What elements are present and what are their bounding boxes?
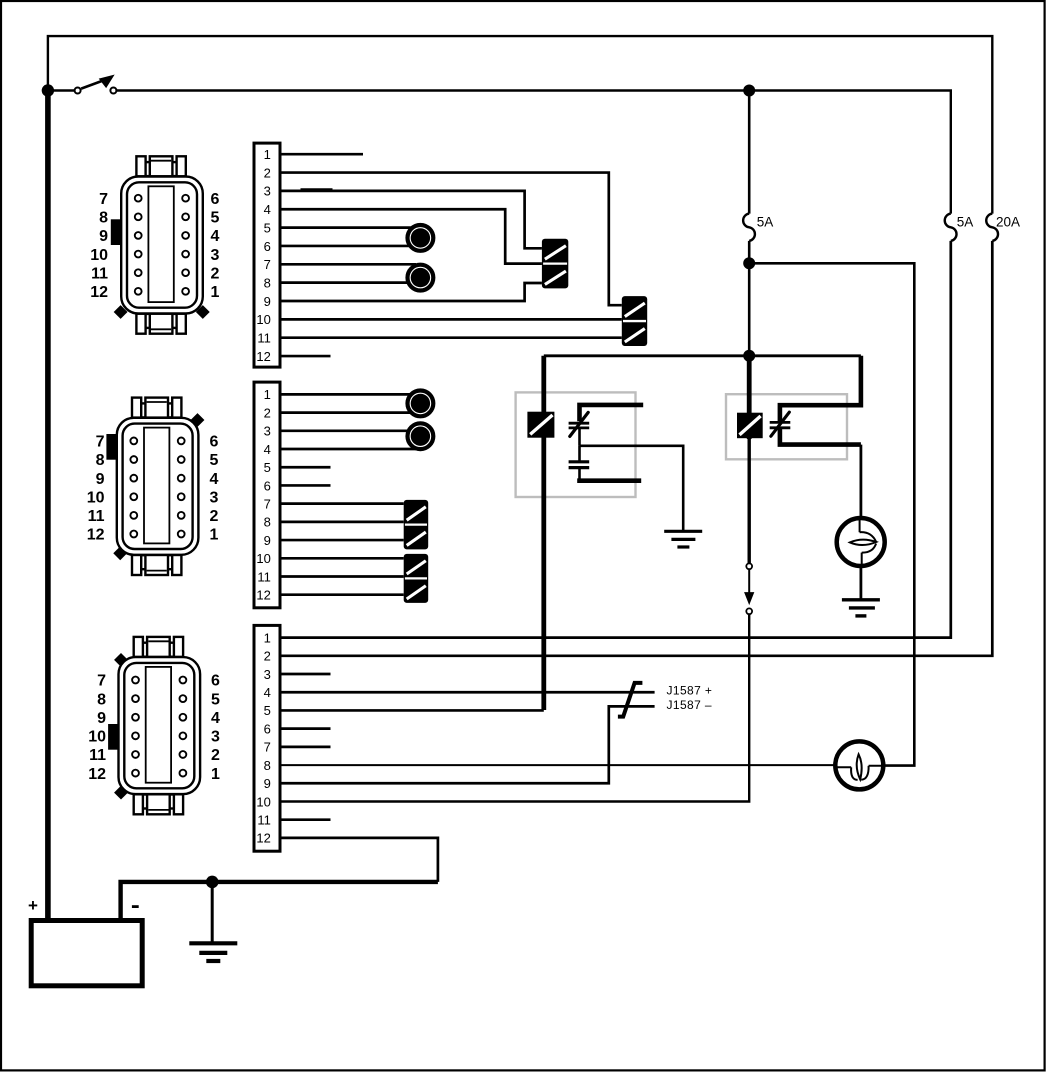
- wire: block X3 pin 3 stub: [281, 673, 331, 676]
- svg-text:5: 5: [211, 691, 220, 708]
- svg-text:1: 1: [211, 766, 220, 783]
- wire: junction down to fuse F1: [748, 91, 751, 214]
- wire: block X2 pin 3 to sensor B4: [281, 429, 416, 432]
- wire: block X1 pin 6 to sensor B1: [281, 245, 416, 248]
- svg-text:10: 10: [88, 729, 106, 746]
- svg-text:5A: 5A: [757, 215, 774, 230]
- wire: block X2 pin 1 to sensor B3: [281, 393, 416, 396]
- svg-text:5A: 5A: [957, 215, 974, 230]
- wire: block X3 pin 11 stub: [281, 818, 331, 821]
- wire: block X2 pin 11 to diode pack D4: [281, 575, 404, 578]
- wire: arrow connector down to terminal block 3 pin 10: [281, 614, 749, 801]
- relay K1 contact plates with slash: [569, 422, 590, 425]
- svg-text:9: 9: [97, 710, 106, 727]
- svg-text:3: 3: [264, 184, 271, 199]
- svg-text:12: 12: [256, 831, 270, 846]
- wire: block X1 pin 12 stub: [281, 355, 331, 358]
- svg-text:1: 1: [264, 147, 271, 162]
- wire: switch to 5A fuse column, down to terminal block 3 pin 1: [117, 91, 951, 214]
- wire: relay K1 contact to ground tap: [578, 428, 581, 446]
- wire: block X2 pin 7 to diode pack D3: [281, 502, 404, 505]
- sensor B1 (block X1 pins 5/6): [408, 225, 434, 251]
- svg-text:4: 4: [264, 442, 271, 457]
- wire: block X1 pin 5 to sensor B1: [281, 226, 416, 229]
- svg-text:7: 7: [264, 496, 271, 511]
- svg-text:3: 3: [211, 729, 220, 746]
- wire: block X3 pin 6 stub: [281, 727, 331, 730]
- wire: F1 column continues down to relay K2: [748, 263, 751, 356]
- svg-text:1: 1: [210, 527, 219, 544]
- svg-text:5: 5: [211, 210, 220, 227]
- svg-text:4: 4: [211, 710, 220, 727]
- wire: block X3 pin 8 to lamp E2: [281, 764, 835, 766]
- wire: block X2 pin 6 stub: [281, 484, 331, 487]
- relay K1 coil (black square): [527, 412, 554, 438]
- svg-text:2: 2: [211, 265, 220, 282]
- wire: block X2 pin 10 to diode pack D4: [281, 557, 404, 560]
- wire: 20A fuse column down to terminal block 3 pin 2: [281, 241, 992, 656]
- ground G2 (lamp E1): [842, 598, 880, 601]
- terminal block X2: [254, 382, 280, 608]
- wire: branch right then down to lamp E2 right terminal: [749, 263, 914, 765]
- junction: ground bus: [206, 876, 219, 889]
- svg-text:6: 6: [211, 673, 220, 690]
- svg-text:11: 11: [91, 265, 108, 282]
- wire: block X3 pin 12 to ground bus: [281, 838, 438, 882]
- svg-text:8: 8: [264, 515, 271, 530]
- svg-text:11: 11: [257, 331, 271, 346]
- wire: block X3 pin 9 to J1587 -: [281, 706, 655, 783]
- svg-text:7: 7: [96, 434, 105, 451]
- svg-text:12: 12: [87, 527, 105, 544]
- svg-text:12: 12: [256, 588, 270, 603]
- wire: block X2 pin 4 to sensor B4: [281, 448, 416, 451]
- diode pack D1 (block X1 pins 3/4/9): [542, 239, 568, 289]
- sensor B4 (block X2 pins 3/4): [408, 423, 434, 449]
- J1587 data link symbol: [618, 683, 643, 717]
- relay K2 contact: top path from feed rail: [780, 356, 861, 421]
- diode pack D3 (block X2 pins 7/8/9): [404, 500, 429, 550]
- svg-text:8: 8: [97, 691, 106, 708]
- ground G3 (battery): [211, 882, 214, 943]
- svg-text:5: 5: [210, 452, 219, 469]
- junction: switch wire / fuse F1 column: [743, 85, 755, 97]
- svg-text:1: 1: [211, 284, 220, 301]
- svg-text:9: 9: [264, 533, 271, 548]
- svg-text:7: 7: [264, 257, 271, 272]
- wire: block X2 pin 5 stub: [281, 466, 331, 469]
- svg-text:6: 6: [264, 478, 271, 493]
- fuse F1 5A: [743, 214, 755, 241]
- svg-text:6: 6: [210, 434, 219, 451]
- svg-text:5: 5: [264, 460, 271, 475]
- svg-text:2: 2: [210, 508, 219, 525]
- wire: relay K2 coil column down to connector arrow: [747, 356, 752, 439]
- svg-text:11: 11: [89, 747, 106, 764]
- connector J3 (12-pin): [143, 643, 176, 657]
- svg-text:7: 7: [99, 191, 108, 208]
- relay K1 contact: top stub: [580, 405, 644, 421]
- wire: block X3 pin 4 to J1587 +: [281, 691, 655, 694]
- svg-text:12: 12: [256, 349, 270, 364]
- svg-text:5: 5: [264, 220, 271, 235]
- svg-text:10: 10: [90, 247, 108, 264]
- svg-text:11: 11: [88, 508, 105, 525]
- wire: block X2 pin 2 to sensor B3: [281, 411, 416, 414]
- wire: relay K1 coil column down to terminal block 3 pin 5: [541, 356, 546, 710]
- wire: block X2 pin 9 to diode pack D3: [281, 539, 404, 542]
- wire: fuse F1 down to junction at Y263: [748, 241, 751, 263]
- lamp E2: [835, 741, 883, 789]
- svg-text:8: 8: [96, 452, 105, 469]
- wire: block X2 pin 12 to diode pack D4: [281, 593, 404, 596]
- wire: block X1 pin 2 to diode pack D2 top: [281, 173, 622, 306]
- svg-text:7: 7: [264, 740, 271, 755]
- svg-text:3: 3: [264, 424, 271, 439]
- inline connector (arrow) on relay K2 coil line: [746, 563, 752, 569]
- wire: lamp E1 to ground G2: [860, 565, 863, 600]
- terminal block X1: [254, 143, 280, 367]
- connector J1 (12-pin): [145, 162, 178, 176]
- junction node at relay feed rail: [743, 350, 755, 362]
- svg-text:4: 4: [264, 685, 271, 700]
- wire: block X2 pin 8 to diode pack D3: [281, 521, 404, 524]
- svg-text:9: 9: [264, 776, 271, 791]
- sensor B2 (block X1 pins 7/8): [408, 265, 434, 291]
- svg-text:4: 4: [210, 471, 219, 488]
- svg-text:2: 2: [264, 405, 271, 420]
- svg-text:11: 11: [257, 813, 271, 828]
- svg-text:6: 6: [264, 239, 271, 254]
- wire: block X3 pin 7 stub: [281, 746, 331, 749]
- svg-text:9: 9: [96, 471, 105, 488]
- svg-text:1: 1: [264, 387, 271, 402]
- svg-text:3: 3: [210, 489, 219, 506]
- wire: block X1 pin 11 to diode pack D2 bottom: [281, 336, 622, 339]
- svg-text:10: 10: [256, 794, 270, 809]
- svg-text:4: 4: [211, 228, 220, 245]
- svg-text:6: 6: [264, 721, 271, 736]
- relay K2 contact: bottom path to lamp E1: [780, 428, 861, 445]
- sensor B3 (block X2 pins 1/2): [408, 391, 434, 417]
- svg-text:5: 5: [264, 703, 271, 718]
- svg-text:8: 8: [264, 275, 271, 290]
- svg-text:1: 1: [264, 630, 271, 645]
- ground G1 (relay K1): [664, 530, 702, 533]
- fuse F2 5A: [945, 214, 957, 241]
- relay K2 coil (black square): [737, 413, 763, 439]
- relay K1 enclosure (gray box): [516, 392, 636, 497]
- diode pack D2 (block X1 pins 2/10/11): [622, 296, 647, 346]
- svg-text:8: 8: [99, 210, 108, 227]
- wire: block X1 pin 8 to sensor B2: [281, 281, 416, 284]
- relay K1 capacitor plates: [569, 460, 590, 463]
- svg-text:9: 9: [264, 294, 271, 309]
- svg-text:J1587 –: J1587 –: [667, 698, 713, 712]
- wire: feed rail from relay K1 coil column across to lamp E1 column: [544, 354, 861, 357]
- wire: battery - to ground bus (thick): [121, 882, 438, 921]
- wire: battery + column (thick): [45, 91, 51, 921]
- svg-text:3: 3: [211, 247, 220, 264]
- wire: block X1 pin 4 to diode pack D1 middle: [281, 209, 542, 263]
- terminal block X3: [254, 625, 280, 851]
- svg-text:4: 4: [264, 202, 271, 217]
- svg-text:8: 8: [264, 758, 271, 773]
- svg-text:10: 10: [256, 551, 270, 566]
- wire: battery + feed up and across top to 20A fuse column: [48, 36, 992, 214]
- wire: block X1 pin 10 to diode pack D2 middle: [281, 318, 622, 321]
- battery G0: [31, 921, 142, 986]
- svg-text:12: 12: [88, 766, 106, 783]
- svg-text:9: 9: [99, 228, 108, 245]
- wire: block X1 pin 3 to diode pack D1 top: [281, 191, 542, 248]
- connector J2 (12-pin): [141, 403, 174, 417]
- relay K2 enclosure (gray box): [726, 394, 847, 459]
- svg-text:+: +: [28, 896, 38, 915]
- svg-text:3: 3: [264, 667, 271, 682]
- svg-text:2: 2: [264, 649, 271, 664]
- relay K1 contact: bottom stub: [578, 468, 581, 481]
- diode pack D4 (block X2 pins 10/11/12): [404, 554, 429, 603]
- svg-text:J1587 +: J1587 +: [667, 683, 713, 697]
- svg-text:6: 6: [211, 191, 220, 208]
- wire: block X1 pin 7 to sensor B2: [281, 263, 416, 266]
- wire: block X1 pin 1 stub: [281, 153, 363, 156]
- wire: block X1 pin 9 to diode pack D1 bottom: [281, 283, 542, 301]
- fuse F3 20A: [986, 214, 998, 241]
- relay K2 contact plates with slash: [770, 421, 791, 424]
- lamp E1: [837, 518, 885, 566]
- svg-text:11: 11: [257, 569, 271, 584]
- svg-text:12: 12: [90, 284, 108, 301]
- svg-text:7: 7: [97, 673, 106, 690]
- junction node below fuse F1: [743, 257, 755, 269]
- svg-text:20A: 20A: [996, 215, 1020, 230]
- svg-text:10: 10: [256, 312, 270, 327]
- svg-text:2: 2: [264, 165, 271, 180]
- switch S1: [42, 84, 54, 96]
- svg-text:10: 10: [87, 489, 105, 506]
- svg-text:2: 2: [211, 747, 220, 764]
